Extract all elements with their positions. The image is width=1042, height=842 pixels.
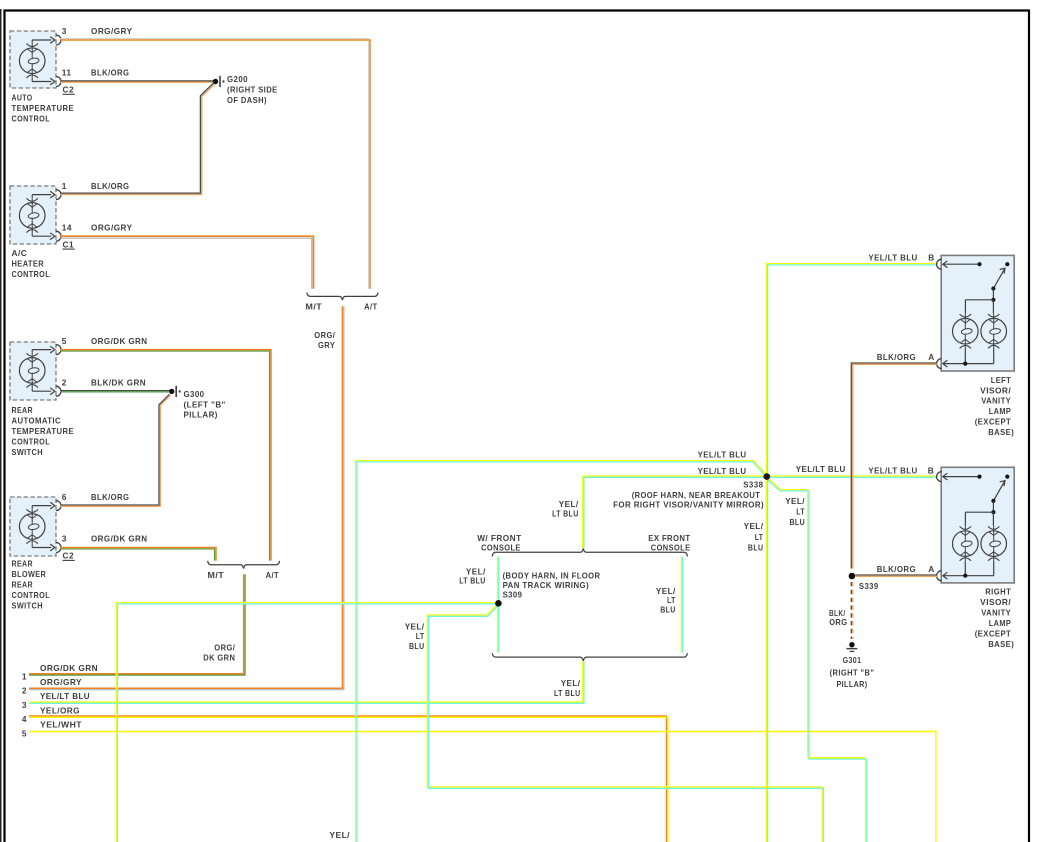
svg-text:11: 11	[62, 68, 72, 78]
svg-text:(RIGHT SIDE: (RIGHT SIDE	[227, 85, 278, 95]
svg-text:(BODY HARN, IN FLOOR: (BODY HARN, IN FLOOR	[503, 571, 601, 581]
svg-text:VANITY: VANITY	[981, 396, 1011, 406]
svg-text:RIGHT: RIGHT	[985, 587, 1011, 597]
svg-text:YEL/LT BLU: YEL/LT BLU	[868, 465, 917, 475]
svg-text:CONTROL: CONTROL	[12, 269, 51, 279]
svg-text:PAN TRACK WIRING): PAN TRACK WIRING)	[503, 580, 589, 590]
svg-text:ORG/GRY: ORG/GRY	[91, 222, 133, 232]
svg-text:C2: C2	[63, 551, 75, 561]
svg-text:A: A	[928, 352, 934, 362]
svg-text:A: A	[928, 564, 934, 574]
svg-text:REAR: REAR	[12, 559, 34, 569]
svg-text:3: 3	[22, 700, 27, 710]
svg-text:6: 6	[62, 492, 67, 502]
svg-text:2: 2	[22, 686, 27, 696]
svg-text:(EXCEPT: (EXCEPT	[975, 629, 1012, 639]
svg-text:BLK/DK GRN: BLK/DK GRN	[91, 377, 146, 387]
svg-text:YEL/ORG: YEL/ORG	[40, 705, 80, 715]
svg-text:ORG/GRY: ORG/GRY	[40, 677, 82, 687]
svg-text:VISOR/: VISOR/	[980, 597, 1011, 607]
svg-text:ORG/DK GRN: ORG/DK GRN	[91, 534, 148, 544]
svg-text:ORG/DK GRN: ORG/DK GRN	[91, 336, 148, 346]
svg-text:CONSOLE: CONSOLE	[651, 542, 691, 552]
svg-text:YEL/LT BLU: YEL/LT BLU	[698, 450, 747, 460]
svg-text:YEL/LT BLU: YEL/LT BLU	[796, 464, 846, 474]
svg-text:LEFT: LEFT	[991, 375, 1012, 385]
svg-text:3: 3	[62, 534, 67, 544]
svg-text:G300: G300	[184, 389, 205, 399]
svg-text:S338: S338	[743, 479, 763, 489]
svg-text:PILLAR): PILLAR)	[184, 410, 218, 420]
svg-text:2: 2	[62, 377, 67, 387]
svg-text:B: B	[928, 465, 934, 475]
svg-text:14: 14	[62, 222, 72, 232]
svg-text:YEL/: YEL/	[744, 521, 764, 531]
svg-text:ORG/: ORG/	[314, 330, 335, 340]
svg-text:TEMPERATURE: TEMPERATURE	[12, 103, 75, 113]
svg-text:BLU: BLU	[409, 641, 425, 651]
svg-text:(EXCEPT: (EXCEPT	[975, 417, 1012, 427]
svg-text:G200: G200	[227, 74, 248, 84]
svg-text:BLK/ORG: BLK/ORG	[91, 492, 129, 502]
svg-text:BLK/ORG: BLK/ORG	[877, 564, 916, 574]
svg-text:5: 5	[22, 728, 27, 738]
svg-text:VANITY: VANITY	[981, 608, 1011, 618]
svg-text:(ROOF HARN, NEAR BREAKOUT: (ROOF HARN, NEAR BREAKOUT	[632, 490, 761, 500]
svg-text:CONTROL: CONTROL	[12, 437, 51, 447]
svg-text:OF DASH): OF DASH)	[227, 95, 267, 105]
svg-text:YEL/: YEL/	[561, 678, 581, 688]
svg-text:3: 3	[62, 26, 67, 36]
svg-text:AUTO: AUTO	[12, 92, 33, 102]
svg-text:(LEFT "B": (LEFT "B"	[184, 399, 226, 409]
svg-text:YEL/LT BLU: YEL/LT BLU	[868, 253, 917, 263]
svg-text:YEL/LT BLU: YEL/LT BLU	[698, 466, 747, 476]
svg-text:LT BLU: LT BLU	[554, 688, 581, 698]
svg-text:LT: LT	[416, 631, 425, 641]
svg-text:LT BLU: LT BLU	[459, 575, 486, 585]
svg-text:CONTROL: CONTROL	[12, 590, 51, 600]
svg-text:C1: C1	[63, 239, 75, 249]
svg-text:GRY: GRY	[318, 340, 335, 350]
svg-text:ORG: ORG	[829, 617, 847, 627]
svg-text:A/T: A/T	[364, 302, 378, 312]
svg-text:SWITCH: SWITCH	[12, 601, 44, 611]
svg-text:BLK/ORG: BLK/ORG	[91, 181, 129, 191]
svg-text:CONSOLE: CONSOLE	[481, 542, 521, 552]
svg-text:CONTROL: CONTROL	[12, 113, 51, 123]
svg-text:SWITCH: SWITCH	[12, 447, 44, 457]
svg-text:1: 1	[62, 181, 67, 191]
svg-text:LT: LT	[796, 507, 805, 517]
svg-text:YEL/LT BLU: YEL/LT BLU	[40, 691, 90, 701]
svg-text:FOR RIGHT VISOR/VANITY MIRROR): FOR RIGHT VISOR/VANITY MIRROR)	[613, 500, 764, 510]
svg-text:YEL/: YEL/	[785, 496, 805, 506]
svg-text:G301: G301	[843, 655, 862, 665]
svg-text:LAMP: LAMP	[989, 406, 1012, 416]
svg-text:AUTOMATIC: AUTOMATIC	[12, 416, 62, 426]
svg-text:BASE): BASE)	[988, 427, 1014, 437]
svg-text:A/T: A/T	[266, 570, 280, 580]
svg-text:LT: LT	[755, 532, 764, 542]
svg-text:VISOR/: VISOR/	[980, 385, 1011, 395]
svg-text:BASE): BASE)	[988, 639, 1014, 649]
svg-text:REAR: REAR	[12, 405, 34, 415]
svg-text:YEL/: YEL/	[559, 499, 579, 509]
svg-text:M/T: M/T	[208, 570, 225, 580]
svg-text:BLK/ORG: BLK/ORG	[877, 352, 916, 362]
svg-text:BLU: BLU	[790, 517, 806, 527]
svg-text:1: 1	[22, 672, 27, 682]
svg-text:4: 4	[22, 714, 27, 724]
svg-text:BLU: BLU	[660, 604, 676, 614]
svg-text:A/C: A/C	[12, 248, 28, 258]
svg-text:BLK/ORG: BLK/ORG	[91, 68, 129, 78]
svg-text:S339: S339	[859, 581, 879, 591]
svg-text:BLOWER: BLOWER	[12, 569, 47, 579]
svg-text:PILLAR): PILLAR)	[837, 679, 868, 689]
svg-text:BLU: BLU	[748, 542, 764, 552]
svg-text:(RIGHT "B": (RIGHT "B"	[830, 668, 875, 678]
svg-text:5: 5	[62, 336, 67, 346]
svg-text:LT BLU: LT BLU	[552, 509, 579, 519]
svg-text:C2: C2	[63, 85, 75, 95]
svg-text:ORG/DK GRN: ORG/DK GRN	[40, 663, 98, 673]
svg-text:ORG/GRY: ORG/GRY	[91, 26, 133, 36]
svg-text:YEL/: YEL/	[329, 830, 350, 840]
svg-text:LAMP: LAMP	[989, 618, 1012, 628]
svg-text:B: B	[928, 253, 934, 263]
svg-text:M/T: M/T	[306, 302, 323, 312]
svg-text:ORG/: ORG/	[214, 643, 235, 653]
svg-text:HEATER: HEATER	[12, 259, 45, 269]
svg-text:TEMPERATURE: TEMPERATURE	[12, 426, 75, 436]
svg-text:DK GRN: DK GRN	[203, 652, 235, 662]
svg-text:S309: S309	[503, 590, 523, 600]
svg-text:REAR: REAR	[12, 580, 34, 590]
svg-text:YEL/WHT: YEL/WHT	[40, 720, 82, 730]
svg-text:YEL/: YEL/	[405, 621, 425, 631]
